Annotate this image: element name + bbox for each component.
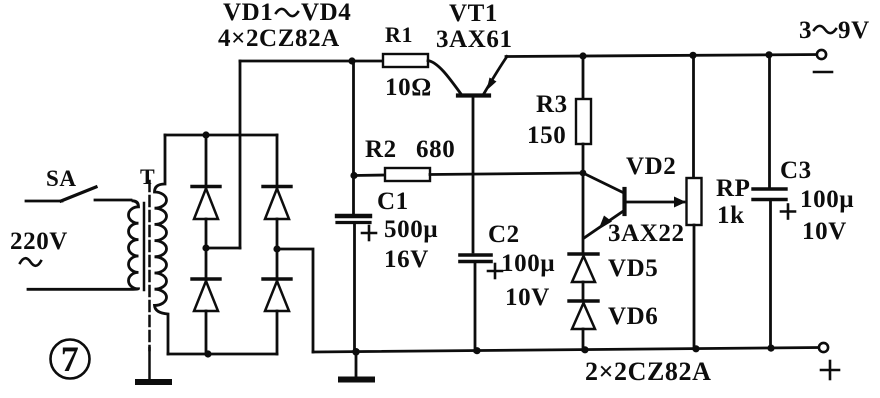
junction top rail / RP <box>689 52 696 59</box>
transformer T core (dashed line) <box>148 181 151 379</box>
svg-text:C2: C2 <box>488 221 520 248</box>
svg-text:500µ: 500µ <box>384 216 438 243</box>
svg-text:150: 150 <box>527 122 566 149</box>
svg-text:C3: C3 <box>780 157 812 184</box>
node bridge mid-left (DC minus) <box>202 244 209 251</box>
label 3~9V <box>799 17 870 44</box>
svg-text:100µ: 100µ <box>800 186 854 213</box>
svg-text:R2: R2 <box>365 136 397 163</box>
diode VD2b (upper-right of bridge) <box>263 135 291 249</box>
wire mid-left node to riser <box>206 247 240 250</box>
label VD1~VD4 <box>223 0 351 26</box>
terminal output plus <box>819 343 828 352</box>
svg-text:VD4: VD4 <box>301 0 351 26</box>
junction bottom rail / VD6 <box>581 346 588 353</box>
svg-text:10V: 10V <box>505 284 550 311</box>
wire mid-right node jog to bottom rail <box>277 249 313 352</box>
svg-text:100µ: 100µ <box>501 250 555 277</box>
transistor VT1 <box>428 57 507 253</box>
transformer T primary winding <box>28 201 139 289</box>
svg-text:16V: 16V <box>384 246 429 273</box>
label minus sign <box>814 71 832 74</box>
svg-text:2×2CZ82A: 2×2CZ82A <box>585 357 712 386</box>
wire bridge top <box>165 134 277 137</box>
junction R2/R3/VD2 collector <box>580 170 587 177</box>
figure number 7 in circle <box>51 339 90 379</box>
svg-text:3AX22: 3AX22 <box>608 220 685 247</box>
wire bridge bottom <box>168 353 277 356</box>
capacitor C3 <box>753 55 795 348</box>
ground (bottom rail) <box>341 352 372 380</box>
junction top rail / C3 <box>765 51 772 58</box>
svg-text:SA: SA <box>46 166 77 191</box>
svg-text:VT1: VT1 <box>449 0 498 27</box>
transformer T secondary winding <box>155 135 169 354</box>
wire top rail right <box>506 55 821 57</box>
terminal output minus <box>817 50 826 59</box>
junction bottom rail / C1 / ground <box>352 348 360 356</box>
svg-text:VD6: VD6 <box>608 303 658 330</box>
svg-text:VD1: VD1 <box>223 0 273 26</box>
resistor R1 <box>383 54 428 67</box>
svg-text:4×2CZ82A: 4×2CZ82A <box>218 25 340 52</box>
svg-text:10Ω: 10Ω <box>385 74 432 101</box>
junction top rail / R3 <box>579 52 586 59</box>
capacitor C2 <box>460 255 502 352</box>
junction top rail / C1 <box>348 57 355 64</box>
label plus sign <box>821 361 839 379</box>
resistor R2 <box>385 168 430 181</box>
svg-text:10V: 10V <box>802 218 847 245</box>
svg-text:C1: C1 <box>377 188 409 215</box>
wire top rail left <box>240 60 383 63</box>
diode VD1 (upper-left of bridge) <box>192 135 220 248</box>
svg-text:3AX61: 3AX61 <box>436 26 513 53</box>
svg-text:VD5: VD5 <box>608 255 658 282</box>
junction bridge bottom / VD3 <box>204 350 211 357</box>
svg-text:9V: 9V <box>838 17 870 44</box>
wire riser bridge to top rail <box>239 61 242 248</box>
svg-text:R1: R1 <box>385 22 413 47</box>
svg-text:RP: RP <box>716 175 751 202</box>
svg-text:220V: 220V <box>10 228 68 255</box>
diode VD4 (lower-right of bridge) <box>263 249 291 354</box>
junction R2 line / C1 <box>350 172 357 179</box>
junction bottom rail / C3 <box>767 345 774 352</box>
svg-text:T: T <box>140 164 155 189</box>
wire R2 left lead <box>354 174 385 177</box>
label ~ (AC) <box>20 258 41 266</box>
ground (transformer core) <box>138 379 169 385</box>
transistor VD2 <box>583 173 684 254</box>
junction bottom rail / RP <box>692 345 699 352</box>
transformer T core (solid bar) <box>143 203 146 290</box>
junction bottom rail / C2 <box>473 347 480 354</box>
diode VD6 <box>569 301 598 351</box>
svg-text:7: 7 <box>61 339 80 379</box>
node bridge mid-right (DC plus) <box>273 245 280 252</box>
svg-text:VD2: VD2 <box>626 153 676 180</box>
svg-text:3: 3 <box>799 17 812 44</box>
svg-text:680: 680 <box>416 136 455 163</box>
potentiometer RP <box>674 55 702 349</box>
capacitor C1 <box>337 61 376 352</box>
switch SA <box>26 187 131 201</box>
junction bridge top / VD1 <box>202 131 209 138</box>
svg-text:1k: 1k <box>717 202 745 229</box>
wire R2 right lead to VD2 node <box>430 173 583 175</box>
diode VD3 (lower-left of bridge) <box>192 248 220 354</box>
diode VD5 <box>569 254 598 301</box>
resistor R3 <box>576 56 591 173</box>
svg-text:R3: R3 <box>536 91 568 118</box>
wire bottom rail <box>313 348 820 353</box>
